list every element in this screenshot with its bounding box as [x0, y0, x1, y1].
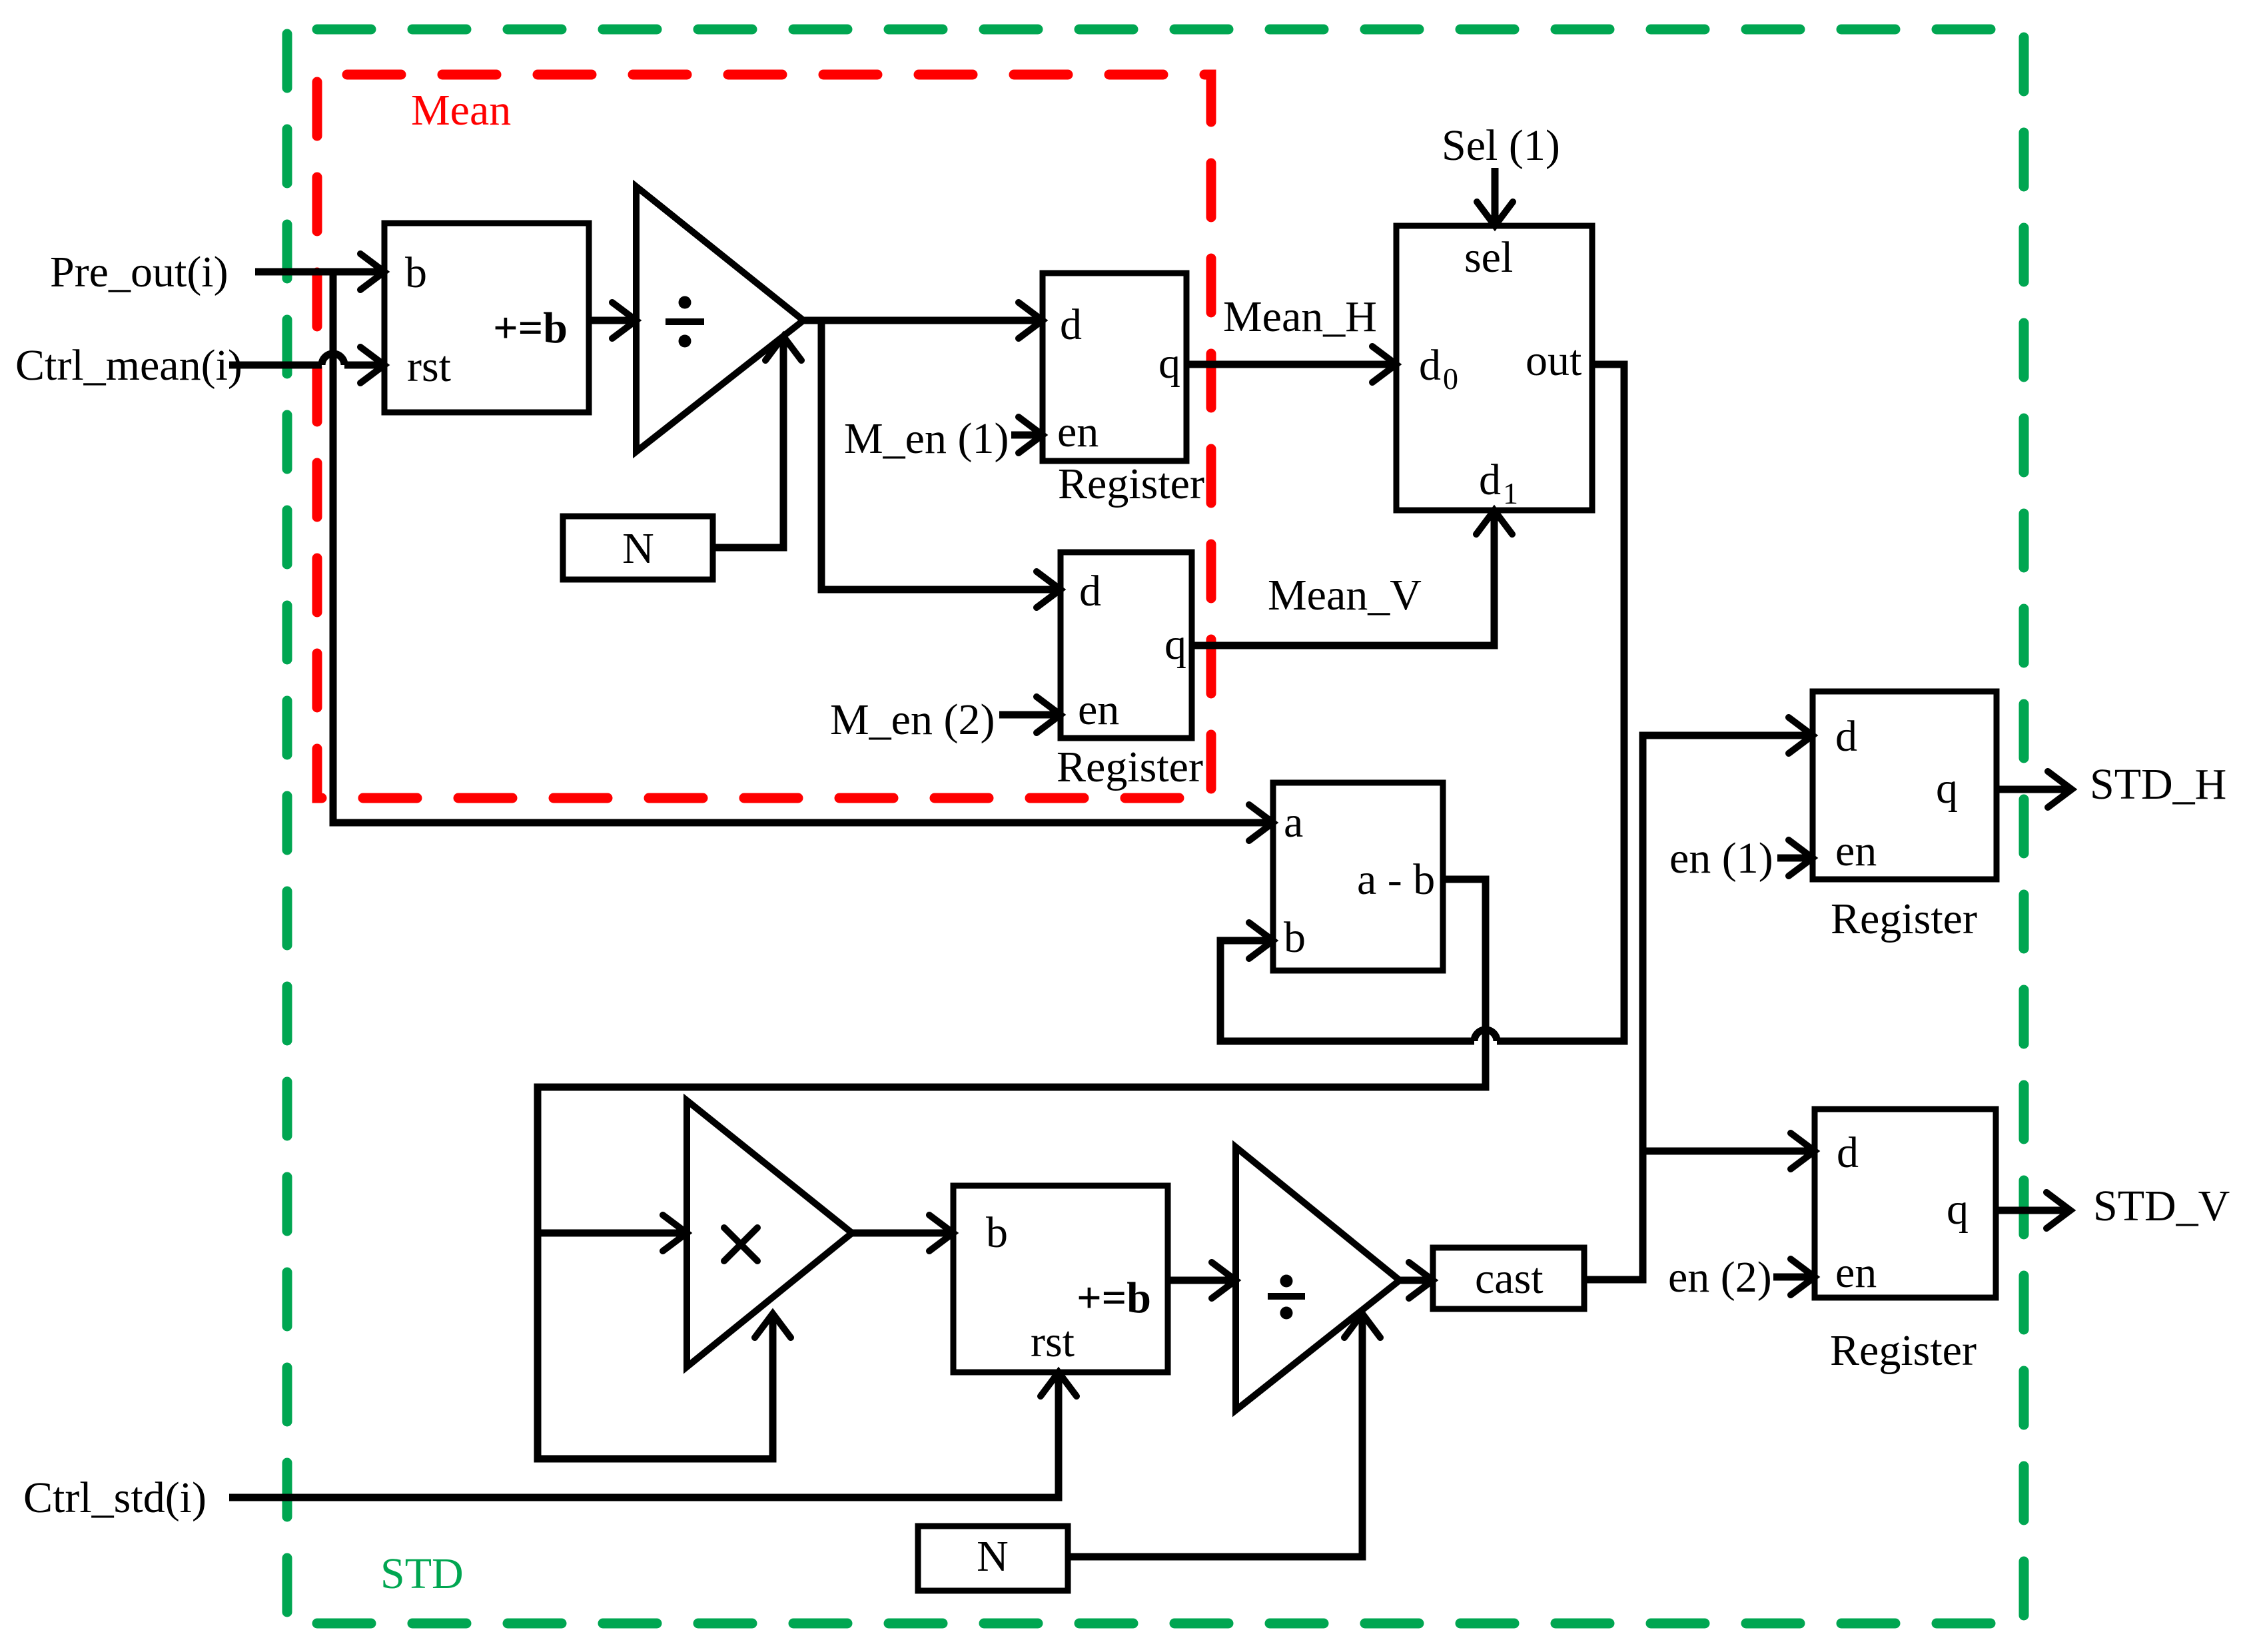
- svg-text:Register: Register: [1057, 743, 1203, 791]
- wire N1 to DIV1 divisor input: [713, 340, 783, 548]
- wire REG3 q to STD_H output: [1997, 786, 2068, 793]
- svg-text:N: N: [977, 1532, 1009, 1581]
- svg-text:b: b: [405, 248, 427, 297]
- svg-text:a - b: a - b: [1357, 855, 1435, 904]
- wire Pre_out(i) to accumulator b input: [255, 268, 384, 276]
- svg-text:a: a: [1284, 798, 1303, 847]
- constant N1: [563, 516, 713, 580]
- Mean block dashed border: [317, 75, 1211, 798]
- wire DIV1 to register REG1 d input: [803, 317, 1043, 324]
- svg-text:+=b: +=b: [1077, 1274, 1151, 1322]
- svg-text:M_en (1): M_en (1): [844, 414, 1009, 463]
- svg-text:d: d: [1419, 341, 1441, 390]
- svg-text:Register: Register: [1831, 895, 1977, 943]
- wire Ctrl_mean(i) to accumulator rst input (with hop): [229, 354, 384, 365]
- svg-text:d: d: [1837, 1128, 1859, 1177]
- svg-text:d: d: [1060, 300, 1082, 349]
- svg-text:rst: rst: [407, 342, 451, 391]
- svg-text:q: q: [1936, 764, 1958, 813]
- constant N2: [918, 1526, 1068, 1591]
- svg-text:q: q: [1164, 620, 1186, 669]
- svg-text:en: en: [1835, 1248, 1877, 1297]
- svg-text:d: d: [1835, 712, 1857, 761]
- register REG1 (Mean_H): [1043, 273, 1186, 461]
- wire REG2 q to mux d1: [1192, 514, 1494, 645]
- svg-text:b: b: [986, 1208, 1008, 1257]
- svg-text:STD: STD: [380, 1549, 464, 1598]
- wire branch Pre_out down to subtractor a input: [333, 272, 1269, 823]
- svg-text:d: d: [1079, 567, 1101, 616]
- svg-text:Ctrl_mean(i): Ctrl_mean(i): [15, 341, 242, 390]
- svg-text:en: en: [1078, 685, 1119, 734]
- svg-text:rst: rst: [1031, 1318, 1075, 1366]
- wire N2 to DIV2 divisor input: [1068, 1318, 1362, 1557]
- svg-text:STD_H: STD_H: [2090, 760, 2226, 809]
- wire Sel(1) to mux sel input: [1492, 168, 1499, 222]
- svg-text:q: q: [1158, 339, 1180, 388]
- svg-text:Pre_out(i): Pre_out(i): [50, 248, 228, 296]
- register REG2 (Mean_V): [1061, 552, 1192, 738]
- wire cast output up to register REG3 d input: [1584, 735, 1813, 1280]
- wire ACC1 to divider DIV1: [589, 317, 636, 324]
- svg-text:Mean_H: Mean_H: [1223, 292, 1377, 341]
- svg-text:Ctrl_std(i): Ctrl_std(i): [23, 1473, 207, 1522]
- wire REG1 q to mux d0: [1186, 361, 1396, 368]
- svg-text:en (1): en (1): [1669, 834, 1773, 883]
- subtractor SUB1 (a - b): [1273, 783, 1443, 971]
- svg-text:N: N: [622, 524, 654, 573]
- accumulator ACC2 (+=b): [953, 1186, 1168, 1372]
- svg-text:en: en: [1835, 827, 1877, 875]
- svg-text:Register: Register: [1830, 1326, 1977, 1375]
- svg-text:out: out: [1526, 336, 1581, 385]
- wire MUX1 out down to subtractor b input (with hop): [1220, 364, 1624, 1041]
- wire en(1) to REG3 en: [1777, 855, 1813, 862]
- svg-text:0: 0: [1443, 362, 1458, 396]
- wire M_en(2) to REG2 en: [999, 711, 1061, 719]
- accumulator ACC1 (+=b): [384, 223, 589, 412]
- multiplexer MUX1: [1396, 226, 1592, 510]
- wire M_en(1) to REG1 en: [1011, 432, 1043, 439]
- svg-text:Sel (1): Sel (1): [1442, 121, 1560, 170]
- svg-text:b: b: [1284, 913, 1306, 962]
- wire branch into multiplier left input: [538, 1230, 687, 1237]
- wire en(2) to REG4 en: [1773, 1274, 1815, 1281]
- wire branch DIV1 down to register REG2 d input: [821, 320, 1061, 590]
- divider DIV1: [636, 187, 803, 452]
- wire MULT1 to accumulator ACC2 b input: [852, 1230, 953, 1237]
- register REG4 (STD_V): [1815, 1109, 1996, 1298]
- svg-text:1: 1: [1503, 476, 1518, 510]
- wire Ctrl_std(i) to ACC2 rst input: [229, 1376, 1059, 1497]
- STD block dashed border: [287, 29, 2024, 1623]
- register REG3 (STD_H): [1813, 691, 1997, 879]
- wire REG4 q to STD_V output: [1996, 1207, 2066, 1214]
- wire branch to register REG4 d input: [1643, 1148, 1815, 1155]
- svg-text:en: en: [1057, 408, 1099, 456]
- divider DIV2: [1236, 1147, 1400, 1410]
- svg-text:Mean_V: Mean_V: [1268, 571, 1422, 619]
- multiplier MULT1: [687, 1100, 852, 1367]
- svg-text:en (2): en (2): [1668, 1253, 1772, 1302]
- svg-text:cast: cast: [1475, 1254, 1544, 1303]
- svg-text:+=b: +=b: [493, 304, 568, 352]
- svg-text:d: d: [1479, 456, 1501, 504]
- svg-text:sel: sel: [1464, 233, 1513, 282]
- cast block: [1433, 1248, 1584, 1309]
- wire ACC2 to divider DIV2: [1168, 1277, 1236, 1284]
- wire DIV2 to cast: [1400, 1277, 1433, 1284]
- svg-text:STD_V: STD_V: [2093, 1182, 2230, 1230]
- svg-text:q: q: [1947, 1185, 1969, 1234]
- svg-text:Mean: Mean: [411, 86, 511, 135]
- wire SUB1 output down-left to multiplier loop: [538, 879, 1486, 1459]
- svg-text:M_en (2): M_en (2): [830, 695, 995, 744]
- svg-text:Register: Register: [1058, 460, 1204, 508]
